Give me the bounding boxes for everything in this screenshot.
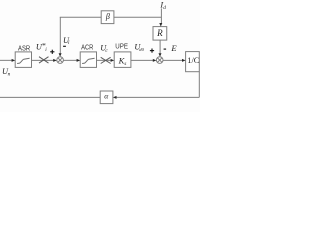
feedback line from 1/C output down [198,72,200,98]
arrowhead down into R [159,23,162,27]
arrowhead into 1/C [182,59,186,62]
minus sign junction1 [63,45,66,47]
svg-text:UPE: UPE [115,41,128,50]
feedback vertical into junction1 [59,17,61,54]
svg-text:E: E [170,43,177,53]
arrowhead into junction1 [53,59,57,62]
svg-text:R: R [156,28,163,38]
block UPE Ks [114,52,131,68]
arrowhead into UPE [111,59,115,62]
minus sign junction2 [164,48,167,50]
arrowhead down into junction2 [159,53,162,57]
summing junction 1 [57,57,64,64]
ACR saturation curve [82,58,95,63]
summing junction 2 [156,57,163,64]
wire ASR to junction1 [32,59,55,61]
Id input vertical line [160,8,162,23]
wire R to junction2 [159,40,161,54]
wire UPE to junction2 [131,59,154,61]
arrowhead into ACR [77,59,81,62]
wire Un input [0,59,13,61]
wire ACR to UPE [97,59,112,61]
svg-text:ACR: ACR [81,43,93,52]
svg-text:n: n [8,71,11,77]
arrowhead into alpha [113,96,117,99]
block R [153,27,167,40]
break mark X1 [39,57,49,63]
arrowhead into junction2 [153,59,157,62]
wire junction2 to 1/C block [163,59,183,61]
arrowhead into ASR [12,59,16,62]
svg-text:β: β [105,12,110,21]
svg-text:d0: d0 [139,47,144,52]
arrowhead down into junction1 [59,53,62,57]
plus sign junction2 [150,50,154,52]
ASR saturation curve [17,58,30,63]
top feedback wire to beta [60,16,101,18]
block 1/C [186,52,200,72]
svg-text:s: s [124,61,126,67]
top wire beta to Id line [114,16,161,18]
svg-text:d: d [163,5,166,11]
bottom feedback wire left segment [0,96,100,98]
bottom feedback wire right segment [116,96,199,98]
block ACR [80,52,96,68]
block ASR [15,52,31,68]
wire junction1 to ACR [63,59,77,61]
plus sign junction1 [50,51,54,53]
break mark X2 [101,57,111,63]
block alpha [100,91,113,104]
svg-text:1/C: 1/C [187,55,199,65]
block beta [101,11,114,24]
svg-text:ASR: ASR [18,43,30,52]
